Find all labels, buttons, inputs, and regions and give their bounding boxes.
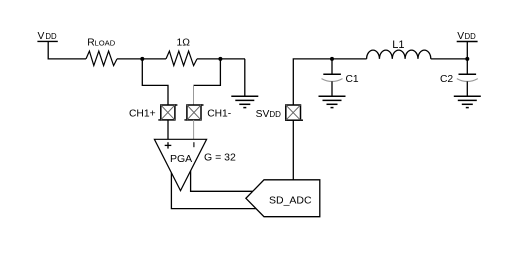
- minus input mark: [193, 142, 195, 147]
- wire 1ohm to ground branch: [197, 58, 245, 60]
- svg-text:LOAD: LOAD: [95, 38, 116, 47]
- svg-text:CH1-: CH1-: [207, 109, 231, 120]
- SVDD label: [256, 109, 282, 120]
- wire VDD stub down: [466, 42, 468, 59]
- svg-text:DD: DD: [269, 110, 281, 119]
- svg-text:DD: DD: [45, 32, 57, 41]
- inductor L1: [367, 50, 431, 59]
- wire CH1+ box to PGA (+ input stroke): [167, 120, 169, 148]
- svg-text:C2: C2: [440, 74, 453, 85]
- svg-text:G = 32: G = 32: [204, 152, 236, 164]
- wire node B to CH1- (upper part): [194, 59, 221, 86]
- ground (sense): [231, 96, 258, 107]
- power VDD (left) label: [38, 31, 58, 42]
- wire PGA lower output to SD_ADC: [171, 173, 255, 209]
- pin box SVDD: [286, 105, 303, 120]
- power VDD (left) bar symbol: [37, 40, 57, 42]
- power VDD (right) label: [457, 31, 476, 42]
- wire SVDD box up to rail: [293, 59, 366, 105]
- op-amp PGA triangle: [154, 139, 206, 190]
- svg-text:SV: SV: [256, 109, 270, 120]
- pin box CH1-: [184, 105, 203, 120]
- capacitor C2: [457, 59, 478, 96]
- wire PGA upper output to SD_ADC: [191, 171, 254, 192]
- wire L1 to VDD/C2 node: [431, 58, 468, 60]
- svg-text:1Ω: 1Ω: [177, 38, 191, 49]
- power VDD (right) bar symbol: [457, 41, 478, 43]
- wire RLOAD to 1ohm: [117, 58, 166, 60]
- resistor RLOAD label: [87, 37, 115, 48]
- node junction dot D: [465, 57, 469, 61]
- svg-text:CH1+: CH1+: [129, 109, 156, 120]
- wire node B to CH1- (grey vertical): [193, 85, 195, 105]
- ground (C2): [454, 96, 481, 107]
- wire SD_ADC top to SVDD box: [292, 120, 294, 180]
- svg-text:V: V: [457, 31, 464, 42]
- node junction dot C1 tap: [330, 57, 334, 61]
- wire down to ground: [244, 59, 246, 96]
- block SD_ADC: [246, 180, 320, 217]
- node junction dot B: [218, 57, 222, 61]
- resistor 1ohm: [166, 51, 197, 66]
- wire VDD stub to main rail: [48, 41, 86, 59]
- wire node A to CH1+: [142, 59, 168, 106]
- plus input mark: [165, 142, 172, 148]
- svg-text:V: V: [38, 31, 45, 42]
- pin box CH1+: [158, 105, 177, 120]
- capacitor C1: [322, 59, 343, 96]
- wire CH1- box to PGA grey segment: [193, 120, 195, 140]
- svg-text:SD_ADC: SD_ADC: [269, 194, 312, 206]
- svg-text:PGA: PGA: [170, 153, 192, 165]
- ground (C1): [319, 96, 346, 107]
- node junction dot A: [140, 57, 144, 61]
- resistor RLOAD: [86, 51, 117, 66]
- svg-text:DD: DD: [465, 32, 477, 41]
- svg-text:L1: L1: [392, 39, 404, 51]
- svg-text:C1: C1: [346, 74, 359, 85]
